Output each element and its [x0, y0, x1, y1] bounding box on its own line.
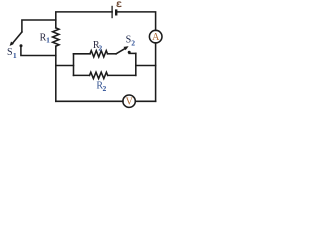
bottom branch wire right	[108, 74, 136, 76]
box right edge	[135, 53, 137, 75]
wire: main top wire left of battery	[56, 12, 112, 28]
svg-text:2: 2	[98, 44, 102, 53]
battery short plate	[115, 9, 117, 15]
svg-text:A: A	[152, 32, 160, 43]
bottom branch wire left	[74, 74, 90, 76]
switch S1 contact dot	[20, 44, 23, 47]
svg-text:2: 2	[103, 84, 107, 93]
label epsilon (emf)	[117, 2, 121, 7]
svg-text:2: 2	[131, 38, 135, 47]
top branch wire left	[74, 53, 91, 55]
switch S2 arrowhead	[124, 46, 129, 50]
switch S2 blade	[116, 48, 126, 54]
switch S2 contact dot	[128, 51, 131, 54]
resistor R2 bottom zigzag	[90, 72, 108, 78]
svg-text:V: V	[126, 97, 134, 108]
wire: R1 bottom lead down to bottom wire	[55, 46, 57, 101]
battery long plate	[111, 6, 113, 18]
right rail between ammeter and bottom	[155, 43, 157, 101]
resistor R2 top zigzag	[90, 51, 108, 57]
top branch wire to S2 pivot	[108, 53, 117, 55]
feed wire left: R1 lead to box left edge	[56, 65, 74, 67]
switch S1 blade	[12, 32, 22, 44]
bottom wire left of voltmeter	[56, 100, 123, 102]
svg-text:S: S	[7, 47, 13, 58]
ammeter A circle	[149, 30, 162, 43]
wire: main top wire right of battery	[116, 12, 155, 30]
svg-text:1: 1	[46, 36, 50, 45]
voltmeter V circle	[123, 95, 135, 107]
svg-text:1: 1	[13, 51, 17, 60]
wire: S1 contact lead + horizontal to R1 lead	[21, 47, 56, 56]
feed wire right: box right edge to rail	[136, 65, 156, 67]
resistor R1 zigzag	[53, 28, 59, 46]
box left edge	[73, 54, 75, 76]
wire: S1 branch top (vertical + horizontal to R1 lead)	[22, 20, 56, 32]
switch S1 arrowhead	[10, 42, 14, 47]
bottom wire right of voltmeter	[135, 100, 155, 102]
wire: S2 contact to box right edge	[129, 52, 136, 54]
